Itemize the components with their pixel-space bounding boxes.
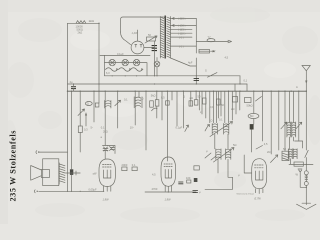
svg-text:6,3: 6,3 xyxy=(106,71,110,75)
resistor comb 1 xyxy=(203,98,207,104)
label TC oval xyxy=(207,39,215,42)
wire lamp feeder xyxy=(104,55,106,75)
arrow tune right xyxy=(296,122,302,129)
arrow var cap xyxy=(271,155,278,163)
T1 primary winding hatch xyxy=(160,17,164,58)
tube V1 envelope xyxy=(99,159,115,187)
V1 pins xyxy=(104,186,111,191)
wire x154.5 vertical xyxy=(154,41,156,76)
lamp L3 xyxy=(133,59,139,65)
node dots on chassis bus xyxy=(67,91,307,92)
svg-text:4,5: 4,5 xyxy=(225,56,229,60)
capacitor C4u between buses xyxy=(71,87,76,89)
wire IF2 to detector xyxy=(205,159,233,189)
arrow antenna xyxy=(305,81,307,85)
svg-text:0,1: 0,1 xyxy=(244,79,248,83)
wire loop to tube xyxy=(121,32,131,45)
svg-text:E,7W: E,7W xyxy=(255,197,262,201)
dial lamp L4 xyxy=(154,61,160,67)
wire ratio to T2 xyxy=(289,137,293,149)
speaker frame xyxy=(43,159,59,186)
rectifier tube AZ1 xyxy=(131,41,144,54)
tap extra xyxy=(171,45,197,47)
svg-text:( 6 ): ( 6 ) xyxy=(179,44,184,48)
svg-text:( 0 ): ( 0 ) xyxy=(179,35,184,39)
svg-text:2kΩ: 2kΩ xyxy=(103,129,108,133)
node dots upper bus xyxy=(73,83,241,84)
wire bottom left xyxy=(39,190,104,192)
resistor R4 xyxy=(150,101,154,107)
svg-text:Während d. Empf.: Während d. Empf. xyxy=(237,193,255,196)
wire drop x117.7 xyxy=(117,91,119,128)
wire drops output transformer xyxy=(289,91,298,141)
wire left vertical xyxy=(67,23,69,91)
switch S2 wave xyxy=(119,68,131,72)
switch arrow band xyxy=(115,100,121,106)
svg-text:8Ω: 8Ω xyxy=(250,114,253,118)
capacitor near V2 xyxy=(178,182,183,184)
svg-text:4,5: 4,5 xyxy=(264,142,268,146)
svg-text:1,9W: 1,9W xyxy=(165,198,172,202)
bus main chassis xyxy=(68,90,308,92)
IF transformer 2 left coil xyxy=(216,149,221,160)
wire drop x167.4 xyxy=(166,91,168,161)
resistor R6 xyxy=(166,101,170,105)
svg-text:0,1: 0,1 xyxy=(101,126,105,130)
node branch xyxy=(306,187,307,188)
oval label EQ xyxy=(248,113,259,118)
earth symbol xyxy=(297,204,317,209)
IF transformer 2 right coil xyxy=(226,149,231,160)
tap 125 xyxy=(171,28,193,30)
svg-text:Ω: Ω xyxy=(87,102,89,106)
svg-text:0,1: 0,1 xyxy=(219,118,223,122)
capacitor bottom V2 xyxy=(193,191,198,193)
speaker cone xyxy=(31,166,42,181)
wire drop x71.5 xyxy=(71,91,73,169)
svg-text:2Ω: 2Ω xyxy=(267,150,270,154)
bus jog left xyxy=(234,84,236,91)
wire T2 bottom xyxy=(289,159,313,165)
wire top-left horizontal xyxy=(68,22,100,24)
svg-text:0,3: 0,3 xyxy=(84,128,88,132)
lamp L1 xyxy=(109,59,115,65)
bus upper xyxy=(68,83,248,85)
svg-text:4700: 4700 xyxy=(152,187,158,191)
arrow branch xyxy=(298,169,302,172)
wire speaker secondary xyxy=(66,171,81,175)
speaker magnet xyxy=(41,170,49,178)
label oval ohm xyxy=(85,102,92,106)
wire drop x135 xyxy=(134,91,136,125)
wire det cluster xyxy=(205,153,216,160)
wire HT centre tap xyxy=(171,58,197,66)
svg-text:0,1μF: 0,1μF xyxy=(117,52,124,56)
switch mains xyxy=(208,73,218,78)
svg-text:Ω: Ω xyxy=(183,95,185,99)
wire x196 drop xyxy=(195,58,197,84)
wire antenna lead xyxy=(305,71,307,91)
bus jog right xyxy=(246,84,248,91)
capacitor dark small xyxy=(194,178,198,182)
jack bottom xyxy=(33,190,36,193)
tap 0 xyxy=(171,36,193,38)
svg-text:2000: 2000 xyxy=(122,163,128,167)
trimmer X above V1 xyxy=(103,146,116,154)
wire rounded loop over rectifier xyxy=(121,17,166,32)
svg-text:50kΩ: 50kΩ xyxy=(247,104,253,108)
svg-text:( 125 ): ( 125 ) xyxy=(178,28,186,32)
wire drop x278.8 xyxy=(278,91,280,150)
output transformer hatch xyxy=(58,163,60,184)
svg-text:235 W Stolzenfels: 235 W Stolzenfels xyxy=(9,131,18,202)
striped coil xyxy=(282,151,289,160)
V3 electrodes xyxy=(255,165,264,180)
switch S1 wave xyxy=(106,68,118,72)
svg-text:4μ: 4μ xyxy=(70,80,73,84)
svg-text:A: A xyxy=(296,85,298,89)
coil L5 xyxy=(105,101,111,109)
node dots heater line xyxy=(112,75,197,76)
V1 electrodes xyxy=(103,165,112,179)
arrow potentiometer xyxy=(145,36,157,43)
svg-text:0,5: 0,5 xyxy=(161,96,165,100)
lamp L2 xyxy=(122,59,128,65)
wire drop x94 xyxy=(93,91,95,122)
coil between jacks xyxy=(305,176,308,180)
wire drop x80 xyxy=(79,91,81,126)
tap 220 xyxy=(171,17,197,19)
node dots bottom wire xyxy=(67,164,307,193)
output transformer T2 secondary xyxy=(293,149,297,159)
jack top xyxy=(36,151,68,154)
components above V2 xyxy=(122,167,127,171)
V2 electrodes xyxy=(164,164,173,178)
svg-text:4μF: 4μF xyxy=(188,61,193,65)
arrow IF1 xyxy=(210,122,233,137)
tube V2 envelope xyxy=(161,157,176,186)
fuse F1 xyxy=(199,50,210,54)
arrow pickup up xyxy=(85,115,87,127)
wire T2 bracket xyxy=(295,141,303,148)
wire lamp row xyxy=(105,63,148,76)
wire drop x68 lower xyxy=(67,91,69,191)
wire rectifier cathode xyxy=(144,47,155,49)
component right V2 xyxy=(194,166,199,170)
wire rectifier anode xyxy=(137,30,139,41)
node x99 xyxy=(98,23,99,24)
resistor R8 xyxy=(194,100,198,105)
potentiometer hum xyxy=(147,37,156,41)
resistor R2 xyxy=(78,126,82,133)
wire y55 horizontal xyxy=(100,54,150,56)
electrodes AZ1 xyxy=(135,45,142,48)
tap 150 xyxy=(171,24,197,26)
capacitor C smoothing plates xyxy=(152,46,157,51)
resistor R5 xyxy=(155,100,159,106)
wire drop x271.2 xyxy=(270,91,272,154)
wire drop x253.8 xyxy=(252,91,254,152)
svg-text:0,1: 0,1 xyxy=(124,98,128,102)
svg-text:5⁴: 5⁴ xyxy=(91,126,94,130)
tube V3 envelope xyxy=(252,159,267,189)
switch S3 wave xyxy=(131,68,143,72)
V2 pins xyxy=(165,186,171,192)
wire drop x196 xyxy=(195,91,197,100)
ratio coil right xyxy=(292,122,296,137)
resistor R3 xyxy=(95,103,99,107)
svg-text:0,1: 0,1 xyxy=(210,105,214,109)
wire drop x262.5 xyxy=(262,91,264,141)
svg-text:1,2W: 1,2W xyxy=(132,31,139,35)
svg-text:≡W: ≡W xyxy=(93,172,98,176)
svg-text:2Ω: 2Ω xyxy=(231,107,234,111)
svg-text:( 150 ): ( 150 ) xyxy=(178,24,186,28)
svg-text:0,1μF: 0,1μF xyxy=(176,125,183,129)
svg-text:TC: TC xyxy=(208,36,212,40)
ratio coil left xyxy=(287,122,291,137)
svg-text:0,05μF: 0,05μF xyxy=(89,187,98,191)
switch arrow det xyxy=(185,125,189,132)
wire lamp4 stubs xyxy=(156,58,158,76)
wire drop x156.8 xyxy=(156,91,158,118)
T1 winding side rails xyxy=(160,17,170,59)
wire bottom mid xyxy=(145,191,196,193)
svg-text:( 110 ): ( 110 ) xyxy=(178,31,185,35)
resistor comb 2 xyxy=(217,99,221,105)
svg-text:Ω: Ω xyxy=(211,119,213,123)
wire V3 left xyxy=(244,155,252,173)
wire mains line xyxy=(196,41,228,43)
switch arrows right of V2 xyxy=(205,125,210,132)
tube V1 grid structure xyxy=(103,148,115,160)
wire drop x105 xyxy=(104,91,106,145)
svg-text:2kΩ: 2kΩ xyxy=(78,31,83,35)
wire drop x146 xyxy=(145,91,147,150)
svg-text:1Ω: 1Ω xyxy=(140,97,143,101)
T1 secondary winding hatch xyxy=(167,17,171,58)
wire drop x285 striped coil xyxy=(284,91,286,151)
arrow mains plug xyxy=(228,40,232,43)
svg-text:4,5: 4,5 xyxy=(152,173,156,177)
wire IF links xyxy=(215,134,228,149)
capacitor electrolytic C5 xyxy=(70,169,73,175)
switch arc xyxy=(152,108,158,111)
svg-text:100: 100 xyxy=(186,176,191,180)
svg-text:( 220 ): ( 220 ) xyxy=(178,17,186,21)
wire heater bus xyxy=(105,75,241,77)
jack circle 2 xyxy=(304,182,308,186)
svg-text:1,9W: 1,9W xyxy=(103,198,110,202)
IF transformer 1 right coil xyxy=(224,124,229,135)
wire drop x190.8 xyxy=(190,91,192,106)
power transformer T1 core xyxy=(164,16,166,59)
wire heater drop right xyxy=(239,76,241,84)
capacitor block dark xyxy=(250,124,254,129)
arrow tune left xyxy=(281,122,287,129)
svg-text:2Ω: 2Ω xyxy=(190,96,193,100)
switch right xyxy=(305,150,308,157)
svg-text:0,1: 0,1 xyxy=(132,163,136,167)
svg-text:S: S xyxy=(205,69,207,73)
parts left of V3 xyxy=(233,97,238,103)
capacitor C mains xyxy=(194,79,199,81)
coil L6 with core xyxy=(134,91,142,108)
comb of IF wires xyxy=(162,91,240,126)
svg-text:5kΩ: 5kΩ xyxy=(151,93,156,97)
wire drop x306 lower xyxy=(305,91,307,204)
V3 pins xyxy=(256,189,263,194)
resistor 100 xyxy=(187,180,191,183)
svg-text:10⁴: 10⁴ xyxy=(130,126,134,130)
wire T2 box xyxy=(294,162,303,166)
tap 110 xyxy=(171,32,193,34)
svg-text:1kΩ: 1kΩ xyxy=(89,19,95,23)
arrow fuse xyxy=(211,51,215,52)
IF transformer 1 left coil xyxy=(212,124,217,135)
jack circle 1 xyxy=(304,171,308,175)
wire vertical x99 xyxy=(98,23,100,103)
arrow IF2 xyxy=(214,148,235,163)
wire drop x183.4 xyxy=(182,91,184,128)
switch arrow pickup xyxy=(78,109,85,116)
resistor R7 xyxy=(189,101,193,106)
output transformer T2 primary xyxy=(288,149,292,159)
antenna xyxy=(302,66,310,71)
wire branch left xyxy=(300,172,306,187)
resistor R1 1k xyxy=(76,21,86,24)
wire selector vertical xyxy=(195,18,197,53)
svg-text:5Ω: 5Ω xyxy=(233,143,236,147)
